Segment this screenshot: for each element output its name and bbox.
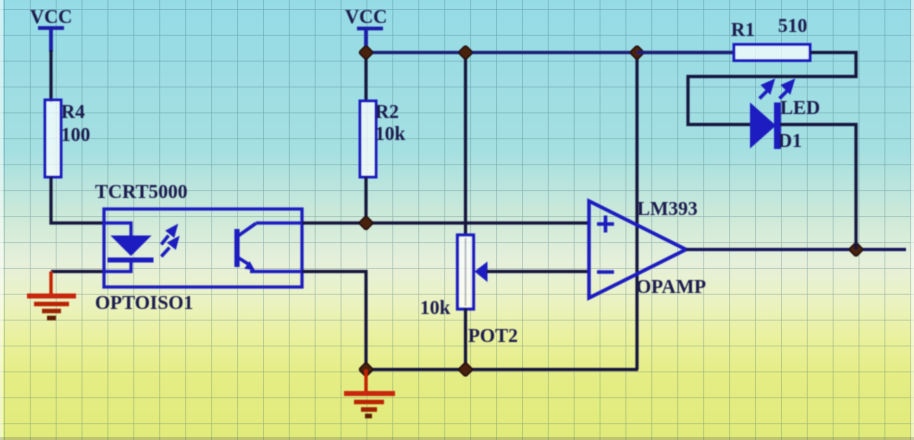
power symbol VCC middle	[357, 29, 383, 55]
svg-text:R4: R4	[61, 102, 85, 123]
LED emission arrows	[760, 82, 793, 99]
wire VCC rail to POT2 top	[464, 53, 467, 237]
ground symbol middle	[344, 370, 395, 417]
svg-text:OPTOISO1: OPTOISO1	[95, 293, 193, 314]
wire R1 to LED anode loop	[688, 53, 856, 125]
svg-text:100: 100	[61, 125, 90, 146]
potentiometer POT2 body	[458, 235, 474, 309]
svg-text:10k: 10k	[420, 298, 451, 319]
junction pot bottom	[458, 362, 472, 376]
wire wiper to op-amp minus input	[487, 270, 591, 273]
optocoupler U-OPTOISO1 box	[104, 209, 302, 287]
svg-text:10k: 10k	[375, 124, 406, 145]
svg-text:510: 510	[778, 16, 807, 37]
resistor R1	[734, 45, 810, 61]
ground rail bottom	[366, 368, 638, 371]
resistor R2	[360, 101, 376, 177]
LED D1	[750, 103, 778, 150]
svg-text:LED: LED	[780, 98, 820, 119]
edge highlight left	[0, 0, 3, 440]
wire op-amp output	[686, 248, 906, 251]
wire VCC1 to R4	[49, 50, 52, 102]
svg-text:TCRT5000: TCRT5000	[95, 182, 188, 203]
junction R2 bottom	[359, 216, 373, 230]
optocoupler photon arrows	[161, 227, 177, 257]
wire optocoupler collector to op-amp plus input	[302, 221, 590, 224]
wire optocoupler pin2 to ground	[51, 270, 104, 273]
junction output node	[849, 242, 863, 256]
power symbol VCC left	[38, 28, 64, 52]
svg-text:LM393: LM393	[637, 199, 698, 220]
optocoupler phototransistor	[237, 223, 302, 272]
wire LED cathode to output node	[780, 125, 856, 250]
junction power rail	[630, 45, 644, 59]
svg-text:R1: R1	[731, 20, 755, 41]
wire R2 to plus node	[364, 177, 367, 224]
edge highlight right	[911, 0, 914, 440]
wire VCC rail top	[366, 51, 734, 54]
wire op-amp power vertical	[635, 53, 638, 370]
wire optocoupler emitter to ground rail	[302, 272, 366, 370]
wire POT2 bottom to ground rail	[464, 308, 467, 370]
junction VCC2 rail	[359, 45, 373, 59]
svg-text:VCC: VCC	[345, 7, 387, 28]
optocoupler internal LED	[104, 223, 154, 272]
ground symbol left	[27, 272, 76, 319]
wire VCC2 to R2	[364, 53, 367, 103]
junction pot feed	[458, 45, 472, 59]
svg-text:POT2: POT2	[468, 326, 518, 347]
op-amp U1 LM393	[589, 201, 686, 298]
svg-text:D1: D1	[778, 131, 802, 152]
edge shade bottom	[0, 437, 914, 440]
resistor R4	[45, 100, 61, 177]
potentiometer wiper arrow	[475, 262, 488, 283]
svg-text:OPAMP: OPAMP	[636, 277, 706, 298]
junction ground rail left	[359, 362, 373, 376]
wire rail to R1	[637, 51, 734, 54]
wire R4 to optocoupler pin1	[51, 177, 104, 223]
svg-text:VCC: VCC	[30, 7, 72, 28]
svg-text:R2: R2	[375, 102, 399, 123]
